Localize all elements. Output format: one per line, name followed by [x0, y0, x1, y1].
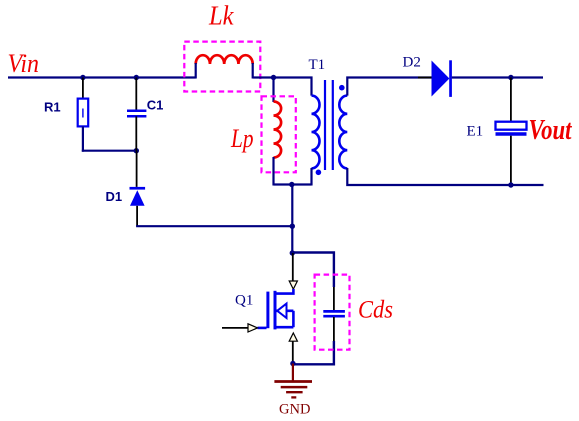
inductor Lp highlight box [262, 96, 296, 172]
capacitor C1 [127, 111, 146, 117]
svg-text:D1: D1 [106, 189, 123, 204]
wire Lk left stub [195, 63, 197, 79]
ground GND [274, 364, 312, 398]
gate wire [222, 327, 248, 329]
wire C1 bottom stub [135, 116, 137, 150]
inductor Lp [274, 102, 282, 158]
capacitor Cds highlight box [315, 275, 350, 350]
wire D1 to drain node [136, 225, 292, 227]
wire Lp bottom stub [272, 157, 274, 186]
svg-text:C1: C1 [147, 98, 164, 113]
wire E1 top stem [510, 78, 512, 122]
wire C1 top stub [135, 78, 137, 111]
wire R1 bottom [82, 126, 84, 151]
junction Cds tap [290, 250, 295, 255]
transistor Q1 [258, 289, 294, 329]
capacitor E1 [496, 122, 527, 134]
wire primary bottom rail [274, 183, 312, 185]
junction output bottom [508, 182, 513, 187]
wire D2 cathode stub [452, 77, 467, 79]
inductor Lk [196, 55, 253, 64]
wire E1 bottom stem [510, 136, 512, 185]
junction Lp tap [271, 75, 276, 80]
junction C1 bottom [134, 148, 139, 153]
source arrow [289, 333, 297, 341]
svg-text:Cds: Cds [358, 294, 393, 323]
svg-text:D2: D2 [403, 55, 421, 71]
wire Lk to primary top [253, 78, 312, 96]
wire D1 bottom stub [136, 206, 138, 226]
diode D2 [432, 60, 452, 97]
svg-text:Vin: Vin [8, 49, 40, 78]
junction primary return [289, 182, 294, 187]
wire drain stem [292, 253, 294, 282]
drain arrow [289, 281, 297, 289]
wire D2 anode stub [418, 77, 432, 79]
wire Lp top stub [272, 78, 274, 103]
svg-text:Vout: Vout [529, 114, 573, 146]
phase dot secondary [339, 85, 345, 91]
wire Cds branch upper stub [333, 287, 335, 311]
svg-text:GND: GND [279, 402, 310, 418]
transformer T1 secondary winding [339, 96, 347, 169]
svg-text:Lk: Lk [208, 1, 234, 31]
wire drain riser [291, 185, 293, 254]
junction ground node [290, 361, 295, 366]
inductor Lk highlight box [184, 42, 260, 92]
phase dot primary [316, 170, 322, 176]
wire primary bottom stub [310, 168, 312, 186]
wire source stem [292, 341, 294, 364]
transformer T1 primary winding [312, 96, 320, 169]
wire Cds top link [292, 253, 334, 288]
gate arrow [248, 324, 258, 332]
svg-text:R1: R1 [44, 100, 61, 115]
wire secondary top stub [347, 78, 431, 96]
junction drain node [290, 224, 295, 229]
svg-text:Lp: Lp [230, 124, 253, 153]
capacitor Cds [323, 311, 345, 316]
wire D1 top stub [136, 151, 138, 187]
wire R1 top stub [82, 78, 84, 99]
junction C1 tap [134, 75, 139, 80]
svg-text:Q1: Q1 [235, 293, 253, 309]
wire Cds branch lower stub [333, 317, 335, 342]
svg-text:E1: E1 [467, 124, 484, 140]
junction R1 tap [80, 75, 85, 80]
wire Cds bottom link [293, 341, 334, 364]
diode D1 [130, 187, 146, 206]
wire input rail [8, 76, 196, 78]
wire Lk right stub [252, 63, 254, 79]
wire R1-C1 bottom link [82, 150, 137, 152]
junction output top [508, 75, 513, 80]
resistor R1 [78, 99, 89, 127]
wire D2 to output [452, 76, 543, 78]
transformer core [325, 80, 333, 170]
wire secondary bottom rail [347, 168, 543, 185]
svg-text:T1: T1 [309, 57, 326, 73]
